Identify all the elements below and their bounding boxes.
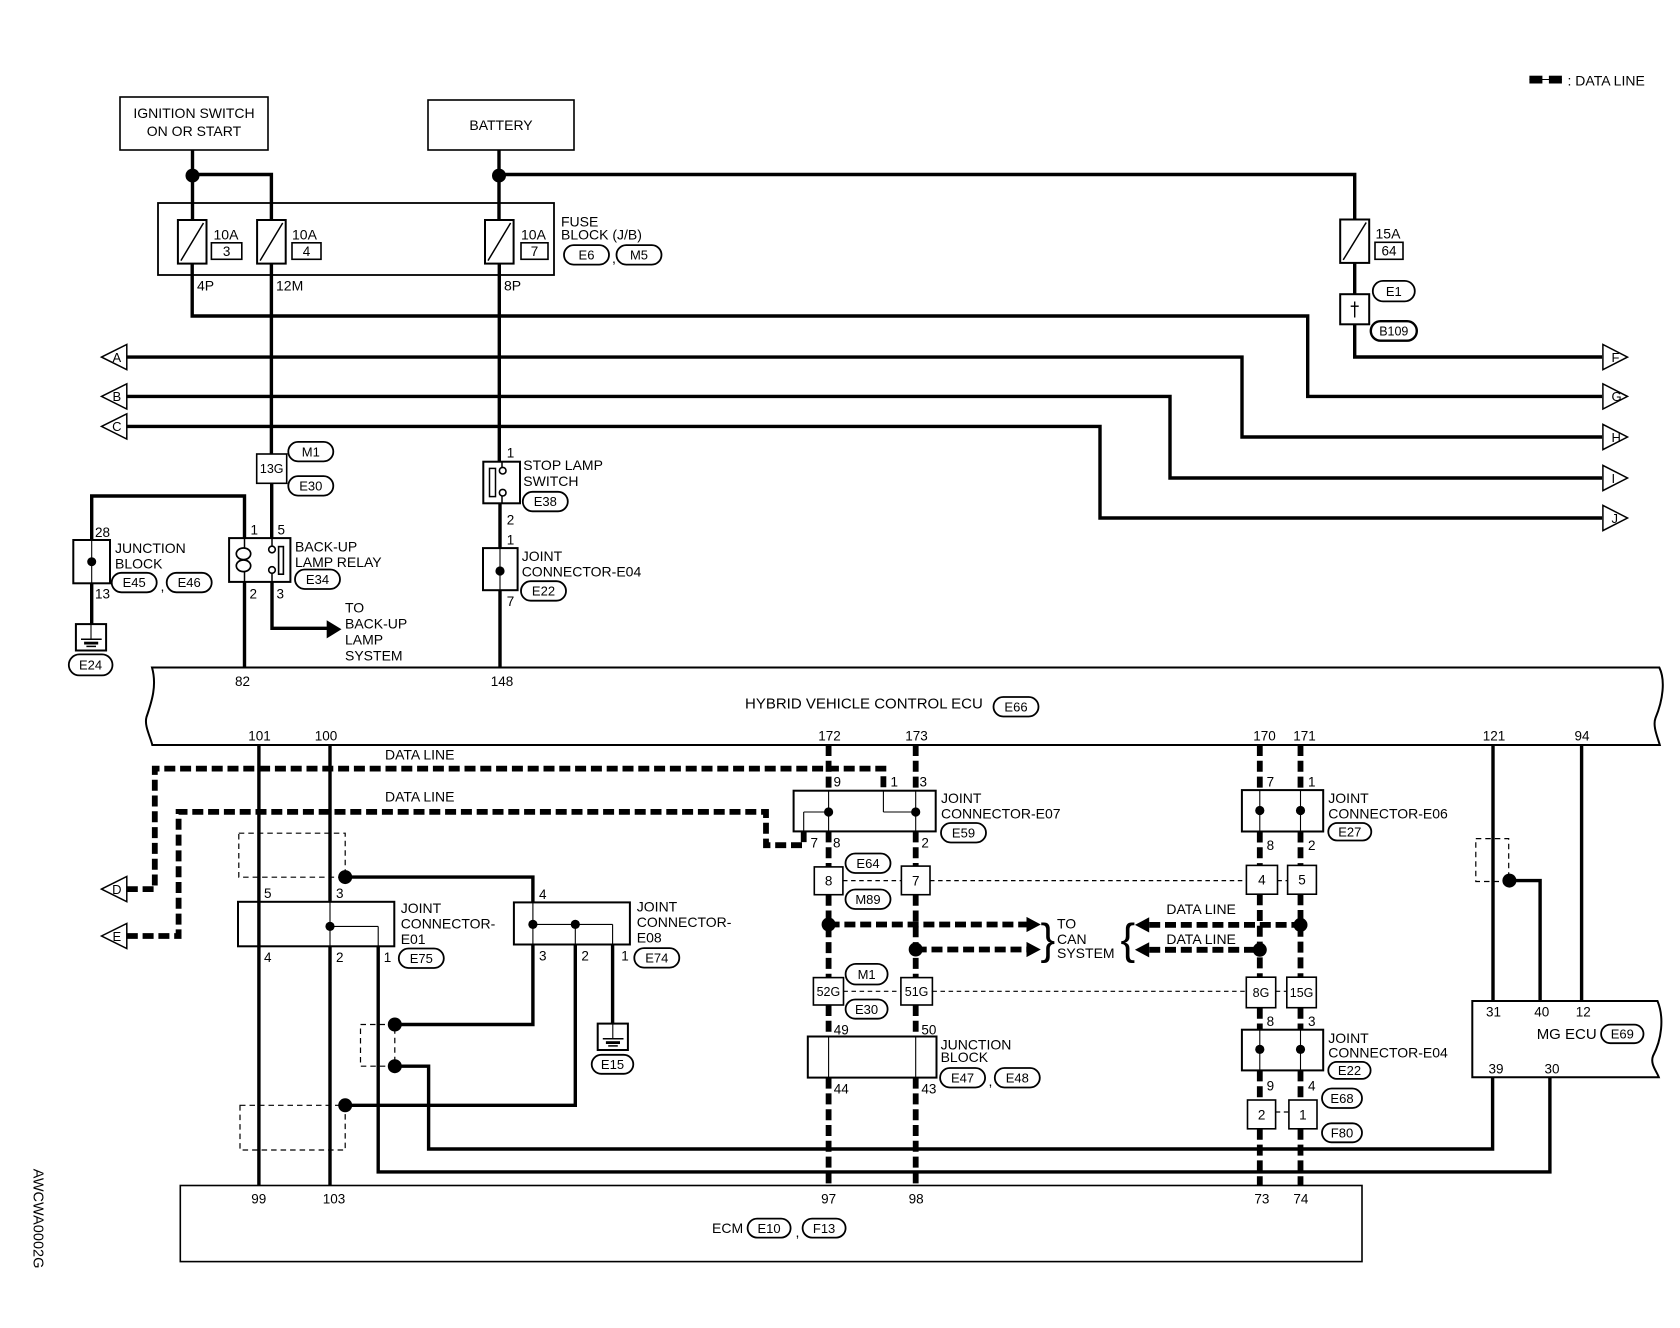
joint connector E08 box [514,902,630,944]
svg-text:170: 170 [1253,729,1276,744]
ground symbol E24 [76,624,106,650]
svg-text:E1: E1 [1386,284,1402,299]
svg-text:103: 103 [323,1192,346,1207]
data line wire E06 pin 8 to box 4 [1257,832,1263,866]
svg-text:7: 7 [1267,775,1275,790]
svg-text:101: 101 [248,729,271,744]
svg-text:E27: E27 [1338,824,1361,839]
connector oval E46 [167,573,212,593]
svg-text:BATTERY: BATTERY [469,117,533,133]
connector oval E22 [521,581,566,601]
connector box 52G [813,978,843,1005]
wire ECU pin 121 to MG ECU pin 31 [1491,745,1494,1001]
wire joint connector E04 pin 7 to ECU pin 148 [498,590,501,668]
svg-text:D: D [112,882,121,897]
svg-text:M5: M5 [630,248,648,263]
svg-text:172: 172 [818,729,841,744]
svg-text:15A: 15A [1376,226,1402,242]
dashed option box at E08 pin 3 branch [361,1025,395,1067]
wire ECU pin 101 to joint connector E01 pin 5 [257,745,260,902]
svg-text:CONNECTOR-E04: CONNECTOR-E04 [1328,1045,1448,1061]
wire ECU pin 100 to joint connector E01 pin 3 [328,745,331,902]
svg-text:7: 7 [531,244,539,259]
data line wire ECU pin 173 to E07 pin 3 [913,745,919,791]
data line wire 8G to joint connector E04 pin 8 [1257,1008,1263,1030]
svg-text:30: 30 [1544,1062,1559,1077]
svg-text:LAMP: LAMP [345,632,383,648]
svg-text:12M: 12M [276,278,303,294]
svg-text:H: H [1612,430,1621,445]
svg-text:M1: M1 [858,967,876,982]
svg-text:: DATA LINE: : DATA LINE [1568,73,1645,89]
connector E1/B109 symbol [1340,294,1369,324]
svg-text:2: 2 [250,587,258,602]
wire connector B109 to arrow F [1355,324,1602,357]
data line wire ECU pin 171 to E06 pin 1 [1298,745,1304,790]
off-page arrow H [1603,424,1628,449]
svg-text:E34: E34 [306,572,329,587]
data line wire E04 pin 9 to box 2 [1257,1070,1263,1100]
wire row C to arrow J [127,426,1602,518]
data line wire box 4 to 8G [1257,894,1263,977]
joint connector E04/E22 box [483,548,518,590]
fuse 4 10A symbol [257,220,286,264]
thin link line between boxes 7 and 4 [930,880,1246,882]
svg-text:100: 100 [315,729,338,744]
svg-text:3: 3 [277,587,285,602]
data line wire 15G to joint connector E04 pin 3 [1298,1008,1304,1030]
svg-text:2: 2 [921,836,929,851]
svg-text:10A: 10A [214,227,240,243]
node branch to MG ECU pin 40 [1502,874,1516,888]
data line wire 51G to junction block pin 50 [913,1005,919,1037]
connector box 2 [1248,1100,1276,1129]
data line wire box 8 to 52G [826,895,832,978]
svg-text:DATA LINE: DATA LINE [1166,931,1236,947]
wire junction block pin 28 to relay pin 1 [92,496,245,540]
svg-text:94: 94 [1574,729,1590,744]
svg-text:CONNECTOR-: CONNECTOR- [637,914,732,930]
svg-text:{: { [1121,915,1136,964]
svg-text:JOINT: JOINT [401,900,442,916]
connector oval E68 [1322,1089,1362,1109]
connector oval B109 [1371,321,1417,341]
svg-text:JOINT: JOINT [941,790,982,806]
svg-text:10A: 10A [521,227,547,243]
fuse id box 7 [521,243,548,259]
connector oval E66 [994,697,1039,717]
joint connector E01 box [238,902,394,947]
svg-text:DATA LINE: DATA LINE [1166,901,1236,917]
svg-text:9: 9 [1267,1079,1275,1094]
svg-text:E6: E6 [579,248,595,263]
data line wire E04 pin 4 to box 1 [1298,1070,1304,1100]
svg-text:ON OR START: ON OR START [147,123,242,139]
node junction at battery feed [492,169,506,183]
svg-text:7: 7 [507,594,515,609]
svg-text:1: 1 [507,533,515,548]
svg-text:1: 1 [891,775,899,790]
off-page arrow E [102,923,127,948]
svg-text:15G: 15G [1290,986,1314,1000]
E06 internal joints [1259,790,1261,831]
svg-text:73: 73 [1254,1192,1269,1207]
data line wire ECU pin 172 to E07 pin 9 [826,745,832,791]
svg-text:BLOCK: BLOCK [115,556,163,572]
option dashed box on line 121 [1476,839,1509,882]
wire stop lamp switch pin 2 to joint connector E04 pin 1 [498,503,501,548]
svg-text:C: C [112,419,121,434]
node CAN branch on line 173 [909,943,923,957]
connector box 4 [1246,865,1277,894]
svg-text:F13: F13 [813,1221,835,1236]
svg-text:E68: E68 [1330,1091,1353,1106]
connector oval M1 mid [846,964,888,985]
svg-text:4P: 4P [197,278,214,294]
hybrid vehicle control ECU box [146,668,1663,746]
svg-text:10A: 10A [292,227,318,243]
svg-text:148: 148 [491,674,514,689]
thin link line between boxes 4 and 5 [1277,880,1287,882]
svg-text:5: 5 [264,886,272,901]
wire relay pin 3 to back-up lamp system [272,582,327,628]
junction block E47/E48 internal paths [828,1037,830,1078]
data line wire arrow E to joint connector E07 pin 7 [127,812,804,936]
svg-text:2: 2 [581,949,589,964]
svg-text:4: 4 [539,887,547,902]
connector box 13G [257,454,287,483]
dashed option box above joint connector E01 [239,833,345,877]
svg-text:13G: 13G [260,462,284,476]
arrowhead from CAN data line upper [1135,917,1149,932]
wire junction block pin 13 to ground E24 [90,583,93,624]
data line wire to CAN system lower [916,947,1027,953]
wire row A to arrow H [127,357,1602,437]
wire battery to fuse 7 [497,150,500,220]
arrowhead to back-up lamp system [327,620,342,638]
svg-text:52G: 52G [817,985,841,999]
connector oval E30 mid [846,1000,888,1019]
svg-text:74: 74 [1293,1192,1309,1207]
wire branch ignition to fuse 4 (12M) [193,175,272,221]
data line wire CAN to line 171 [1149,922,1300,928]
fuse id box 3 [211,243,241,259]
svg-text:E64: E64 [856,856,879,871]
svg-text:E01: E01 [401,931,426,947]
svg-text:2: 2 [1308,838,1316,853]
svg-text:E59: E59 [952,826,975,841]
thin link line between boxes 2 and 1 [1276,1111,1289,1113]
svg-text:AWCWA0002G: AWCWA0002G [30,1169,46,1269]
wire row B to arrow I [127,396,1602,478]
svg-text:IGNITION SWITCH: IGNITION SWITCH [133,105,254,121]
node branch on E08 pin 3 wire [388,1018,402,1032]
svg-text:2: 2 [336,950,344,965]
svg-text:E45: E45 [123,575,146,590]
fuse 64 15A symbol [1340,220,1369,263]
ignition switch source box [120,97,268,150]
ground oval E24 [69,654,113,675]
svg-text:G: G [1612,389,1622,404]
connector oval F80 [1322,1123,1362,1142]
svg-text:1: 1 [251,523,259,538]
arrowhead from CAN data line lower [1135,942,1149,957]
svg-text:BACK-UP: BACK-UP [345,616,407,632]
data line wire box 7 to 51G [913,895,919,978]
svg-text:HYBRID VEHICLE CONTROL ECU: HYBRID VEHICLE CONTROL ECU [745,696,983,713]
fuse 3 10A symbol [178,220,207,264]
svg-text:E08: E08 [637,930,662,946]
relay coil symbol [236,538,250,582]
node branch on E08 pin 2 wire [338,1098,352,1112]
svg-text:82: 82 [235,674,250,689]
svg-text:43: 43 [921,1082,936,1097]
connector oval F13 [803,1219,846,1238]
svg-text:40: 40 [1534,1005,1549,1020]
wire fuse 4 output 12M to connector 13G [270,264,273,454]
connector box 8 [814,867,843,895]
fuse 7 10A symbol [485,220,514,264]
svg-text:E66: E66 [1004,700,1027,715]
svg-text:BLOCK (J/B): BLOCK (J/B) [561,227,642,243]
wire fuse 64 to connector E1/B109 [1353,263,1356,294]
connector oval E1 [1373,281,1415,302]
wire branch node to E08 pin 2 [345,945,575,1106]
connector oval E74 [634,948,679,968]
wire ignition switch to fuse 3 [191,150,194,220]
svg-text:97: 97 [821,1192,836,1207]
connector oval E10 [748,1219,791,1238]
off-page arrow J [1603,505,1628,530]
svg-text:3: 3 [1308,1014,1316,1029]
junction block internal joint [91,540,93,583]
dashed option box at E08 pin 2 branch [240,1105,345,1150]
svg-text:,: , [612,250,616,266]
E04 right internal joints [1259,1030,1261,1071]
svg-text:8: 8 [825,874,833,889]
svg-text:4: 4 [1308,1079,1316,1094]
connector oval M89 [846,890,891,910]
svg-text:F80: F80 [1331,1126,1353,1141]
svg-text:49: 49 [834,1023,849,1038]
svg-text:3: 3 [223,244,231,259]
svg-text:12: 12 [1576,1005,1591,1020]
wire E01 pin 4 to ECM pin 99 [257,946,260,1185]
svg-text:50: 50 [921,1023,936,1038]
joint connector E06 box [1242,790,1323,831]
joint connector E04 right box [1242,1030,1323,1071]
wire branch to MG ECU pin 40 [1509,881,1540,1001]
svg-text:,: , [161,578,165,594]
connector oval E38 [523,492,568,512]
connector oval E48 [995,1068,1040,1088]
svg-text:1: 1 [1308,775,1316,790]
E08 internal joints [532,902,534,944]
data line wire 52G to junction block pin 49 [826,1005,832,1037]
svg-text:B109: B109 [1379,325,1408,339]
fuse block J/B outline [158,203,554,275]
MG ECU box [1472,1001,1661,1077]
svg-text:E: E [112,929,121,944]
data line wire to CAN system upper [829,922,1027,928]
svg-text:64: 64 [1381,244,1397,259]
connector oval E75 [399,949,444,969]
svg-text:5: 5 [278,523,286,538]
connector oval E6 [564,245,609,265]
data line wire junction block pin 43 to ECM pin 98 [913,1078,919,1186]
svg-text:9: 9 [834,775,842,790]
svg-text:39: 39 [1488,1062,1503,1077]
svg-text:E22: E22 [1338,1063,1361,1078]
svg-text:7: 7 [811,836,819,851]
svg-text:28: 28 [95,525,110,540]
node branch to joint connector E08 pin 4 [338,870,352,884]
svg-text:CONNECTOR-: CONNECTOR- [401,916,496,932]
svg-text:173: 173 [905,729,928,744]
wire ECU pin 94 to MG ECU pin 12 [1580,745,1583,1001]
svg-text:BACK-UP: BACK-UP [295,539,357,555]
svg-text:MG ECU: MG ECU [1537,1026,1597,1043]
svg-text:1: 1 [384,950,392,965]
data line wire box 5 to 15G [1298,894,1304,977]
node CAN branch on line 170 [1253,943,1267,957]
svg-text:5: 5 [1298,873,1306,888]
connector box 51G [901,978,933,1005]
svg-text:I: I [1612,471,1616,486]
svg-text:3: 3 [336,886,344,901]
svg-text:SYSTEM: SYSTEM [345,648,403,664]
svg-text:E46: E46 [178,575,201,590]
connector oval E47 [940,1068,985,1088]
svg-text:E48: E48 [1006,1071,1029,1086]
svg-text:8: 8 [833,836,841,851]
connector box 15G [1287,977,1317,1008]
data line wire box 2 to ECM pin 73 [1257,1129,1263,1186]
svg-text:JOINT: JOINT [522,548,563,564]
svg-text:}: } [1041,915,1056,964]
svg-text:2: 2 [1258,1107,1266,1122]
thin link line between 52G and 51G [843,990,901,992]
svg-text:J: J [1612,511,1619,526]
svg-text:STOP LAMP: STOP LAMP [523,457,603,473]
thin link line between 51G and 8G [932,990,1246,992]
svg-text:4: 4 [264,950,272,965]
wire relay pin 2 to ECU pin 82 [243,582,246,668]
svg-text:JOINT: JOINT [637,899,678,915]
svg-text:44: 44 [834,1082,850,1097]
connector box 5 [1288,865,1317,894]
off-page arrow F [1603,345,1628,370]
wire branch battery to fuse 64 [499,175,1355,220]
wire E01 pin 5 to pin 4 through box [257,902,260,947]
ECM box [180,1186,1362,1262]
thin link line between boxes 8 and 7 [843,880,901,882]
legend data line sample [1529,76,1562,84]
svg-text:E22: E22 [532,584,555,599]
svg-text:CONNECTOR-E06: CONNECTOR-E06 [1328,806,1448,822]
off-page arrow C [102,414,127,439]
svg-text:ECM: ECM [712,1220,743,1236]
relay contact symbol [269,538,284,582]
svg-text:DATA LINE: DATA LINE [385,789,455,805]
svg-text:1: 1 [507,446,515,461]
wire E08 pin 3 to branch node [395,945,533,1025]
svg-text:E30: E30 [299,479,322,494]
back-up lamp relay box [229,538,290,582]
svg-text:TO: TO [345,600,364,616]
off-page arrow A [102,345,127,370]
svg-text:TO: TO [1057,916,1076,932]
svg-text:E10: E10 [758,1221,781,1236]
wire branch to E08 pin 4 [345,877,533,902]
node CAN branch on line 171 [1294,918,1308,932]
junction block E47/E48 box [808,1037,937,1078]
svg-text:7: 7 [912,873,920,888]
fuse id box 4 [292,243,321,259]
wire E08 pin 1 to ground E15 [611,945,614,1024]
svg-text:E75: E75 [410,951,433,966]
svg-text:BLOCK: BLOCK [941,1049,989,1065]
off-page arrow B [102,384,127,409]
thin link line between 8G and 15G [1276,990,1287,992]
connector oval E30 at 13G [288,476,333,496]
wire 13G to relay pin 5 [270,483,273,538]
svg-text:8: 8 [1267,838,1275,853]
off-page arrow G [1603,384,1628,409]
wire E01 pin 1 to MG ECU pin 30 [378,946,1550,1172]
svg-text:1: 1 [1299,1107,1307,1122]
svg-text:E24: E24 [79,658,102,673]
joint connector E07 box [794,791,936,832]
arrowhead to CAN system lower [1027,942,1041,957]
fuse id box 64 [1375,242,1403,259]
wire fuse 3 output 4P to arrow G [192,264,1602,397]
svg-text:M89: M89 [855,892,880,907]
E07 internal joints [804,791,921,832]
data line wire CAN to line 170 [1149,947,1260,953]
ground oval E15 [592,1055,634,1074]
junction block E45/E46 box [73,540,110,583]
arrowhead to CAN system upper [1027,917,1041,932]
svg-text:13: 13 [95,587,110,602]
svg-text:LAMP RELAY: LAMP RELAY [295,554,382,570]
svg-text:M1: M1 [302,444,320,459]
data line wire E07 pin 8 to box 8 [826,831,832,867]
svg-text:3: 3 [539,949,547,964]
joint connector E04/E22 internal joint [499,548,501,590]
svg-text:8P: 8P [504,278,521,294]
battery source box [428,100,574,150]
svg-text:51G: 51G [905,985,929,999]
svg-text:JUNCTION: JUNCTION [115,540,186,556]
svg-text:3: 3 [920,775,928,790]
svg-text:E30: E30 [855,1002,878,1017]
connector oval M5 [617,245,662,265]
svg-text:E69: E69 [1611,1027,1634,1042]
svg-text:E47: E47 [951,1071,974,1086]
svg-text:4: 4 [1258,873,1266,888]
wire E01 pin 2 to ECM pin 103 [328,946,331,1185]
wire branch node to MG ECU pin 39 [395,1066,1493,1149]
svg-text:,: , [796,1224,800,1240]
node branch to MG ECU pin 39 [388,1059,402,1073]
ground symbol E15 [598,1024,628,1050]
svg-text:B: B [112,389,121,404]
node junction at ignition feed [186,169,200,183]
node CAN branch on line 172 [822,918,836,932]
svg-text:SYSTEM: SYSTEM [1057,945,1115,961]
svg-text:A: A [112,350,121,365]
